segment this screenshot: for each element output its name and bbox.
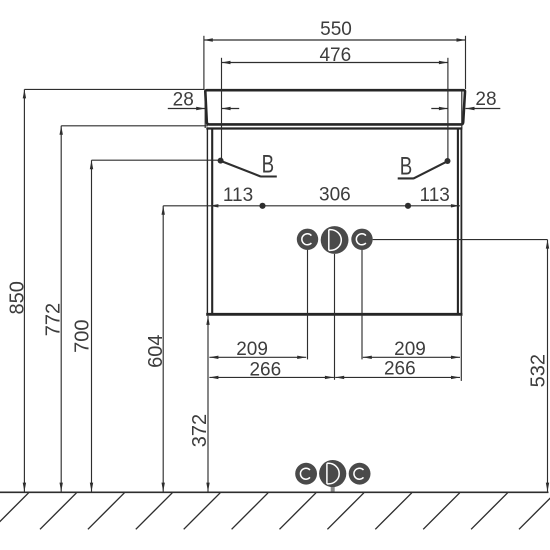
dimension line 113/306/113 (extends left to 604 line) <box>163 205 460 207</box>
hinge B leader right diagonal <box>414 162 446 178</box>
floor circle D <box>319 460 346 487</box>
dimension line 550 <box>204 39 466 41</box>
dim 700 leader (to hinge dot) <box>92 159 220 161</box>
hinge B leader right underline <box>398 177 414 179</box>
dim 28 right tail line <box>431 108 448 110</box>
dim 28 right opposing tail <box>466 108 501 110</box>
cabinet bottom edge <box>206 313 462 316</box>
svg-text:209: 209 <box>394 339 426 360</box>
dimension 476 extension line left (continues to hinge) <box>221 58 223 161</box>
dimension line 266 left <box>209 376 334 378</box>
dim 28 left opposing arrow (points left at door line) <box>222 107 231 110</box>
arrow left of dim 550 <box>204 38 213 41</box>
dim 28 right arrow (points right at door line) <box>439 107 448 110</box>
dim 850 leader <box>24 88 204 90</box>
arrow right of dim 550 <box>457 38 466 41</box>
ground hatching <box>0 493 550 530</box>
arrow at cabinet right wall <box>451 204 460 207</box>
svg-text:266: 266 <box>384 359 416 380</box>
letter c right <box>356 234 366 245</box>
dim dot between 306 and 113 <box>405 203 411 209</box>
svg-text:113: 113 <box>223 185 253 206</box>
dimension 476 extension line right (continues to hinge) <box>447 58 449 161</box>
cabinet right outer wall <box>460 127 462 315</box>
svg-text:306: 306 <box>319 184 351 205</box>
letter D <box>329 230 342 251</box>
hinge B leader left diagonal <box>223 162 261 177</box>
svg-text:700: 700 <box>72 320 94 353</box>
cabinet left outer wall <box>206 127 208 315</box>
drain stub below floor D <box>331 487 335 492</box>
floor circle c right <box>349 463 371 485</box>
dim 700 vertical line <box>91 160 93 491</box>
drain extension line left <box>307 250 309 360</box>
arrow at cabinet left wall <box>209 204 218 207</box>
svg-text:604: 604 <box>145 335 167 368</box>
dim dot between 113 and 306 <box>259 203 265 209</box>
svg-text:209: 209 <box>236 339 268 360</box>
hinge dot left <box>218 158 224 164</box>
ground line <box>0 491 549 493</box>
svg-text:113: 113 <box>420 185 450 206</box>
siphon circle c left <box>297 229 318 250</box>
svg-text:B: B <box>400 153 413 181</box>
dim 372 vertical line (cabinet wall extension) <box>207 316 209 492</box>
floor letter c right <box>354 468 364 479</box>
cabinet top edge <box>206 127 462 129</box>
dim 604 vertical line <box>162 206 164 492</box>
svg-text:28: 28 <box>475 89 496 110</box>
arrow left of dim 476 <box>222 61 231 64</box>
svg-text:266: 266 <box>249 360 281 381</box>
dimension line 476 <box>222 62 448 64</box>
basin inner-left line <box>204 91 206 129</box>
arrow right of dim 476 <box>439 61 448 64</box>
svg-text:476: 476 <box>319 45 351 66</box>
dimension line 266 right <box>335 376 460 378</box>
dim 28 left arrow (points right at basin edge) <box>196 107 205 110</box>
drain extension line middle <box>334 254 336 380</box>
dim 772 vertical line <box>60 126 62 492</box>
basin (washbasin outline) <box>205 90 465 124</box>
floor letter c left <box>300 468 310 479</box>
hinge B leader left underline <box>260 175 277 177</box>
basin inner-right line <box>461 91 463 129</box>
floor letter D <box>327 463 339 484</box>
dim 532 vertical line <box>547 240 549 492</box>
svg-text:850: 850 <box>6 281 28 314</box>
dim 28 right opposing arrow (points left at basin edge) <box>466 107 475 110</box>
hinge dot right <box>445 158 451 164</box>
dimension line 209 right <box>363 356 460 358</box>
cabinet left inner wall <box>211 128 213 313</box>
floor circle c left <box>295 463 317 485</box>
siphon line to 532 dim <box>373 239 548 241</box>
dim 772 leader <box>61 125 208 127</box>
svg-text:772: 772 <box>42 303 64 336</box>
svg-text:B: B <box>262 150 275 178</box>
dimension 550 extension line left <box>203 36 205 89</box>
dim 28 left opposing tail <box>222 108 240 110</box>
dim 28 left tail line <box>168 108 205 110</box>
svg-text:372: 372 <box>189 414 211 447</box>
siphon circle D <box>321 226 349 254</box>
dimension 550 extension line right <box>465 36 467 89</box>
drain extension line right <box>361 250 363 360</box>
svg-text:550: 550 <box>320 19 352 40</box>
dim 850 vertical line <box>23 89 25 491</box>
cabinet right inner wall <box>457 128 459 313</box>
svg-text:532: 532 <box>528 354 550 387</box>
letter c left <box>302 234 312 245</box>
siphon circle c right <box>351 229 372 250</box>
dimension line 209 left <box>209 356 306 358</box>
svg-text:28: 28 <box>173 90 194 111</box>
cabinet right wall extension below <box>460 316 462 381</box>
